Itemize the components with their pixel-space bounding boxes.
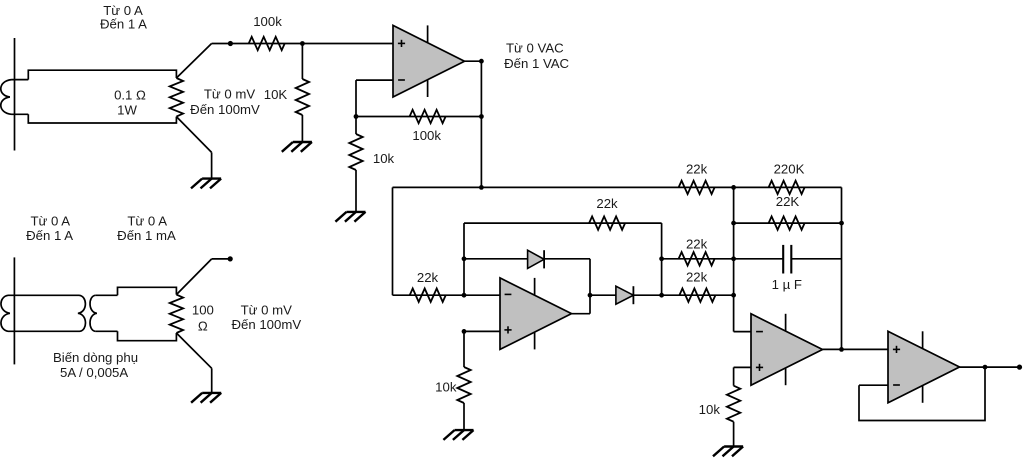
- svg-text:Từ 0 VAC: Từ 0 VAC: [506, 40, 564, 55]
- wire down to 10K: [301, 44, 303, 80]
- wire bus to U3 inv input: [734, 331, 751, 333]
- svg-text:Từ 0 mV: Từ 0 mV: [241, 303, 293, 318]
- wire row3 to bus: [662, 258, 734, 260]
- node junction dot: [731, 185, 736, 190]
- node junction dot: [983, 365, 988, 370]
- svg-text:Từ 0 A: Từ 0 A: [127, 213, 167, 228]
- resistor R13 22K: [769, 216, 805, 229]
- resistor R4 10k: [349, 134, 362, 170]
- svg-text:Đến 1 A: Đến 1 A: [100, 17, 147, 32]
- svg-text:22k: 22k: [686, 161, 708, 176]
- svg-text:Từ 0 A: Từ 0 A: [30, 213, 70, 228]
- node junction dot: [731, 221, 736, 226]
- wire D2 row: [590, 294, 616, 296]
- wire T1 coil top step: [12, 79, 29, 81]
- node junction dot: [659, 256, 664, 261]
- ground: [191, 393, 221, 403]
- wire U2 output: [572, 313, 591, 315]
- svg-text:10k: 10k: [435, 380, 457, 395]
- svg-text:10k: 10k: [699, 402, 721, 417]
- svg-text:22k: 22k: [417, 270, 439, 285]
- node terminal dot: [1017, 365, 1022, 370]
- U4 minus input glyph: [893, 384, 900, 386]
- resistor R10 22k: [679, 252, 715, 265]
- svg-text:22k: 22k: [686, 237, 708, 252]
- svg-text:0.1 Ω: 0.1 Ω: [114, 88, 146, 103]
- wire D2 to bus: [633, 294, 661, 296]
- wire right vertical down: [841, 187, 843, 349]
- wire D1 to corner: [544, 258, 590, 260]
- svg-text:1 µ F: 1 µ F: [772, 277, 802, 292]
- node terminal dot: [228, 41, 233, 46]
- U1 plus input glyph: [398, 40, 405, 47]
- resistor R14 10k: [727, 386, 740, 422]
- ground: [282, 142, 312, 152]
- wire 220K row: [734, 186, 842, 188]
- wire row4 to bus: [662, 294, 734, 296]
- wire U1 output down: [480, 61, 482, 187]
- wire 22K row: [734, 222, 842, 224]
- resistor R11 22k: [679, 289, 715, 302]
- resistor R7 22k input: [410, 289, 446, 302]
- U3 plus input glyph: [756, 364, 763, 371]
- node junction dot: [479, 114, 484, 119]
- wire diagonal shunt top to node: [176, 44, 211, 79]
- node terminal dot: [228, 256, 233, 261]
- resistor R3 100k feedback: [410, 110, 446, 123]
- wire right bus vertical: [733, 187, 735, 331]
- wire T2 secondary loop box: [118, 287, 177, 340]
- svg-text:220K: 220K: [774, 161, 805, 176]
- wire bus to U3 noninv input: [734, 366, 751, 368]
- node junction dot: [462, 329, 467, 334]
- wire T2 coil bottom step: [95, 330, 117, 332]
- node junction dot: [462, 256, 467, 261]
- resistor R2 10K: [296, 79, 309, 115]
- svg-text:Từ 0 mV: Từ 0 mV: [204, 87, 256, 102]
- svg-text:Biến dòng phụ: Biến dòng phụ: [53, 350, 138, 365]
- node junction dot: [731, 293, 736, 298]
- wire diagonal 100ohm bottom: [176, 333, 211, 368]
- wire T2 coil top step: [95, 294, 117, 296]
- wire diagonal 100ohm top to terminal: [176, 259, 211, 295]
- transformer T1 secondary coil: [1, 80, 12, 115]
- wire capacitor row left: [734, 258, 784, 260]
- wire capacitor row right: [791, 258, 841, 260]
- U4 plus input glyph: [893, 346, 900, 353]
- wire noninv down to 10k: [463, 331, 465, 367]
- wire top horizontal to op-amp U1: [212, 43, 393, 45]
- resistor R8 22k feedback: [589, 216, 625, 229]
- op-amp U4: [888, 331, 960, 403]
- svg-text:10k: 10k: [373, 151, 395, 166]
- wire U1 inverting input: [356, 79, 393, 81]
- svg-text:Đến 1 A: Đến 1 A: [26, 228, 73, 243]
- wire diode D1 row: [464, 258, 528, 260]
- wire U4 feedback loop: [859, 367, 985, 420]
- node junction dot: [731, 256, 736, 261]
- svg-text:22K: 22K: [776, 194, 800, 209]
- wire terminal horizontal: [212, 258, 231, 260]
- ground: [191, 179, 221, 189]
- U1 minus input glyph: [398, 79, 405, 81]
- node junction dot: [354, 114, 359, 119]
- node junction dot: [479, 185, 484, 190]
- wire left vertical down: [392, 187, 394, 295]
- resistor 0.1 ohm shunt: [170, 78, 183, 117]
- svg-text:Đến 1 mA: Đến 1 mA: [117, 228, 176, 243]
- resistor R12 220K: [769, 181, 805, 194]
- svg-text:22k: 22k: [686, 269, 708, 284]
- node junction dot: [659, 293, 664, 298]
- diode D2: [616, 286, 634, 304]
- svg-text:Đến 100mV: Đến 100mV: [231, 317, 301, 332]
- wire down to ground: [211, 368, 213, 393]
- wire 10k top: [355, 117, 357, 135]
- ground: [443, 430, 473, 440]
- wire T1 coil bottom step: [12, 113, 29, 115]
- resistor R9 10k: [457, 367, 470, 403]
- diode D1: [528, 250, 545, 268]
- wire mid bus vertical: [661, 223, 663, 295]
- wire 10k to ground: [463, 403, 465, 430]
- svg-text:Đến 100mV: Đến 100mV: [190, 102, 260, 117]
- wire feedback vertical: [463, 223, 465, 295]
- wire 10k to ground: [733, 422, 735, 447]
- resistor R5 100 ohm: [170, 295, 183, 333]
- node junction dot: [462, 293, 467, 298]
- svg-text:100: 100: [192, 303, 214, 318]
- wire 10K to ground: [301, 115, 303, 142]
- op-amp U2: [500, 278, 572, 350]
- svg-text:100k: 100k: [412, 128, 441, 143]
- capacitor C1 1uF: [783, 245, 791, 274]
- wire U3 output row: [823, 348, 889, 350]
- wire 10k to ground: [355, 170, 357, 212]
- wire noninv down: [733, 331, 735, 333]
- transformer T2 secondary coil: [90, 295, 97, 331]
- wire U1 output: [465, 60, 482, 62]
- transformer T1 primary line: [14, 38, 16, 151]
- wire U4 output: [960, 366, 1020, 368]
- node junction dot: [300, 41, 305, 46]
- svg-text:5A / 0,005A: 5A / 0,005A: [60, 365, 128, 380]
- wire long row from U1 output: [393, 186, 734, 188]
- wire U2 feedback top row: [464, 222, 662, 224]
- wire diagonal shunt bottom: [176, 117, 211, 153]
- U2 plus input glyph: [504, 326, 511, 333]
- node junction dot: [588, 293, 593, 298]
- transformer T2 racetrack winding: [1, 295, 86, 331]
- wire T1 secondary loop box: [28, 70, 176, 123]
- wire U2 noninv input: [464, 330, 500, 332]
- ground: [713, 447, 743, 457]
- transformer T2 primary line: [13, 257, 15, 364]
- node junction dot: [839, 347, 844, 352]
- node junction dot: [839, 221, 844, 226]
- svg-text:Ω: Ω: [198, 319, 208, 334]
- wire U4 inv input: [859, 384, 888, 386]
- wire down to ground: [211, 152, 213, 178]
- svg-text:10K: 10K: [264, 87, 288, 102]
- resistor R6 22k: [679, 181, 715, 194]
- wire U1 inv input down: [355, 80, 357, 116]
- ground: [335, 212, 365, 222]
- node junction dot: [479, 59, 484, 64]
- U3 minus input glyph: [756, 331, 763, 333]
- resistor R1 100k: [249, 37, 285, 50]
- svg-text:22k: 22k: [596, 196, 618, 211]
- U2 minus input glyph: [505, 293, 512, 295]
- svg-text:100k: 100k: [253, 14, 282, 29]
- svg-text:Đến 1 VAC: Đến 1 VAC: [504, 56, 569, 71]
- op-amp U1: [393, 25, 465, 97]
- svg-text:1W: 1W: [117, 103, 137, 118]
- op-amp U3: [751, 314, 823, 385]
- wire U2 input row: [393, 294, 501, 296]
- wire D1 corner down to output: [589, 259, 591, 314]
- wire feedback row: [356, 116, 481, 118]
